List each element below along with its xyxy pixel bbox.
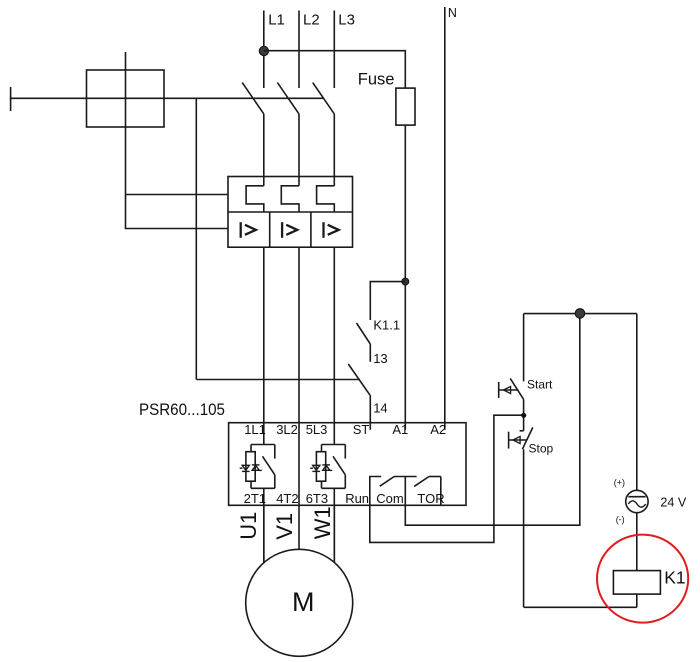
- wire coil bottom: [636, 594, 638, 607]
- wire com terminal: [404, 477, 406, 506]
- start button lever: [510, 378, 523, 399]
- svg-text:N: N: [448, 6, 457, 20]
- node stop junction: [521, 413, 526, 418]
- svg-text:1L1: 1L1: [244, 422, 266, 437]
- wire 3L2 through soft starter to motor: [298, 248, 300, 550]
- thyristor up phase 3: [322, 465, 332, 471]
- wire tor link: [429, 476, 441, 478]
- wire start upper: [523, 314, 525, 382]
- thyristor module phase 1 loop bottom stub: [250, 481, 252, 488]
- bypass contact phase 1 lower: [274, 475, 276, 489]
- wire start to stop: [523, 399, 525, 431]
- thyristor loop rect phase 1: [246, 452, 255, 482]
- wire run output: [370, 415, 524, 542]
- wire run-com link: [394, 476, 417, 478]
- thyristor module phase 1 split: [251, 444, 275, 446]
- thyristor module phase 3 bottom join: [322, 487, 346, 489]
- fuse F1: [396, 88, 415, 125]
- svg-text:U1: U1: [236, 512, 261, 540]
- overload relay divider 2: [310, 212, 312, 248]
- overcurrent symbol I> cell 2: [282, 222, 297, 238]
- wire L3 top: [333, 11, 335, 89]
- svg-text:L1: L1: [268, 11, 285, 28]
- svg-text:M: M: [292, 587, 315, 617]
- source DC bar: [628, 496, 645, 498]
- svg-text:A2: A2: [430, 422, 446, 437]
- wire bottom to coil: [524, 606, 637, 608]
- wire 6T3 output: [333, 488, 335, 562]
- svg-text:(-): (-): [616, 515, 625, 525]
- svg-text:Com: Com: [376, 491, 403, 506]
- wire com output: [405, 314, 580, 526]
- highlight red ellipse: [597, 535, 688, 623]
- run contact lever: [380, 477, 394, 487]
- wire to fuse: [264, 51, 406, 89]
- thyristor module phase 3 loop bottom stub: [321, 481, 323, 488]
- wire U1: [263, 505, 265, 562]
- svg-text:6T3: 6T3: [306, 491, 328, 506]
- svg-text:Start: Start: [527, 378, 553, 392]
- svg-text:ST: ST: [353, 422, 370, 437]
- svg-text:24 V: 24 V: [660, 495, 687, 509]
- overcurrent symbol I> cell 1: [241, 222, 256, 238]
- thyristor module phase 3 loop stub: [321, 445, 323, 452]
- thyristor up phase 1: [252, 465, 262, 471]
- wire fuse to A1: [404, 125, 406, 430]
- terminal tick left supply: [10, 87, 12, 111]
- wire 24V upper: [636, 314, 638, 491]
- heater element phase 2: [281, 186, 299, 212]
- start button plunger: [498, 382, 500, 398]
- bypass contact phase 3 lever: [333, 456, 345, 475]
- heater element phase 3: [317, 186, 335, 212]
- svg-text:Stop: Stop: [529, 441, 554, 455]
- svg-text:(+): (+): [614, 478, 625, 488]
- box motor-protection cross box: [87, 70, 165, 127]
- stop button lever: [522, 427, 532, 449]
- bypass contact phase 3 fixed: [344, 445, 346, 459]
- svg-text:14: 14: [373, 401, 387, 416]
- wire tor terminal: [440, 477, 442, 506]
- overload relay F2 body: [228, 177, 353, 248]
- wire N: [444, 7, 446, 430]
- source 24V circle: [626, 490, 648, 512]
- svg-text:L2: L2: [303, 11, 320, 28]
- stop button arrow: [513, 436, 520, 443]
- thyristor down phase 3: [310, 465, 320, 471]
- overload relay divider 1: [269, 212, 271, 248]
- bypass contact phase 3 lower: [344, 475, 346, 489]
- svg-text:K1.1: K1.1: [373, 317, 400, 332]
- overload relay middle line: [228, 211, 353, 213]
- node K1.1 branch junction: [402, 278, 409, 285]
- svg-text:Fuse: Fuse: [358, 71, 395, 89]
- svg-text:L3: L3: [338, 11, 355, 28]
- svg-text:4T2: 4T2: [276, 491, 298, 506]
- thyristor down phase 1: [240, 465, 250, 471]
- wire L1 below breaker: [263, 114, 265, 186]
- svg-text:V1: V1: [272, 513, 297, 540]
- start button actuator line: [499, 389, 519, 391]
- wire horizontal to overload top row: [126, 194, 229, 196]
- heater element phase 1: [246, 186, 264, 212]
- stop button plunger: [508, 432, 510, 449]
- contact K1.1 lever: [357, 323, 371, 344]
- wire vertical trip link: [195, 98, 197, 379]
- wire L2 top: [298, 11, 300, 89]
- svg-text:A1: A1: [392, 422, 408, 437]
- wire L3 below breaker: [333, 114, 335, 186]
- wire branch to K1.1: [370, 282, 405, 320]
- wire 2T1 output: [263, 488, 265, 562]
- wire horizontal to ST contact: [196, 379, 359, 381]
- source sine: [628, 501, 645, 507]
- start button arrow: [504, 386, 511, 393]
- tor contact lever: [414, 477, 429, 487]
- wire 1L1 down to soft starter: [263, 248, 265, 445]
- wire vertical through box: [125, 52, 127, 229]
- wire L2 below breaker: [298, 114, 300, 186]
- wire main horizontal linkage: [10, 97, 324, 99]
- svg-text:W1: W1: [310, 506, 335, 539]
- svg-text:TOR: TOR: [417, 491, 444, 506]
- overcurrent symbol I> cell 3: [324, 222, 339, 238]
- wire between contacts pin 13: [369, 344, 371, 362]
- svg-text:Run: Run: [345, 491, 369, 506]
- contact 13-14 lever: [348, 364, 370, 396]
- soft starter U1 body: [229, 423, 466, 506]
- run contact fixed left: [370, 477, 381, 506]
- motor M circle: [246, 549, 353, 656]
- breaker pole 3 lever: [313, 83, 335, 114]
- svg-text:13: 13: [373, 351, 387, 366]
- svg-text:5L3: 5L3: [306, 422, 328, 437]
- stop button actuator line: [509, 439, 527, 441]
- node L1 fuse junction: [259, 46, 268, 55]
- wire 24V lower: [636, 513, 638, 571]
- thyristor module phase 1 loop: [250, 445, 252, 452]
- wire contact to ST: [369, 396, 371, 430]
- svg-text:K1: K1: [664, 567, 685, 587]
- wire W1: [333, 505, 335, 562]
- wire control top: [524, 313, 637, 315]
- coil K1: [613, 571, 660, 595]
- svg-text:3L2: 3L2: [276, 422, 298, 437]
- wire 5L3 down to soft starter: [333, 248, 335, 445]
- thyristor module phase 3 split: [322, 444, 346, 446]
- svg-text:PSR60...105: PSR60...105: [139, 400, 225, 419]
- node control junction: [575, 309, 585, 319]
- svg-text:2T1: 2T1: [244, 491, 266, 506]
- wire stop down: [523, 449, 525, 607]
- bypass contact phase 1 lever: [263, 456, 275, 475]
- wire horizontal to overload bottom row: [125, 228, 228, 230]
- stop seat: [520, 430, 524, 432]
- breaker pole 1 lever: [242, 83, 264, 114]
- wire L1 top: [263, 11, 265, 89]
- breaker pole 2 lever: [277, 83, 299, 114]
- thyristor module phase 1 bottom join: [251, 487, 275, 489]
- bypass contact phase 1 fixed: [274, 445, 276, 459]
- thyristor loop rect phase 3: [316, 452, 325, 482]
